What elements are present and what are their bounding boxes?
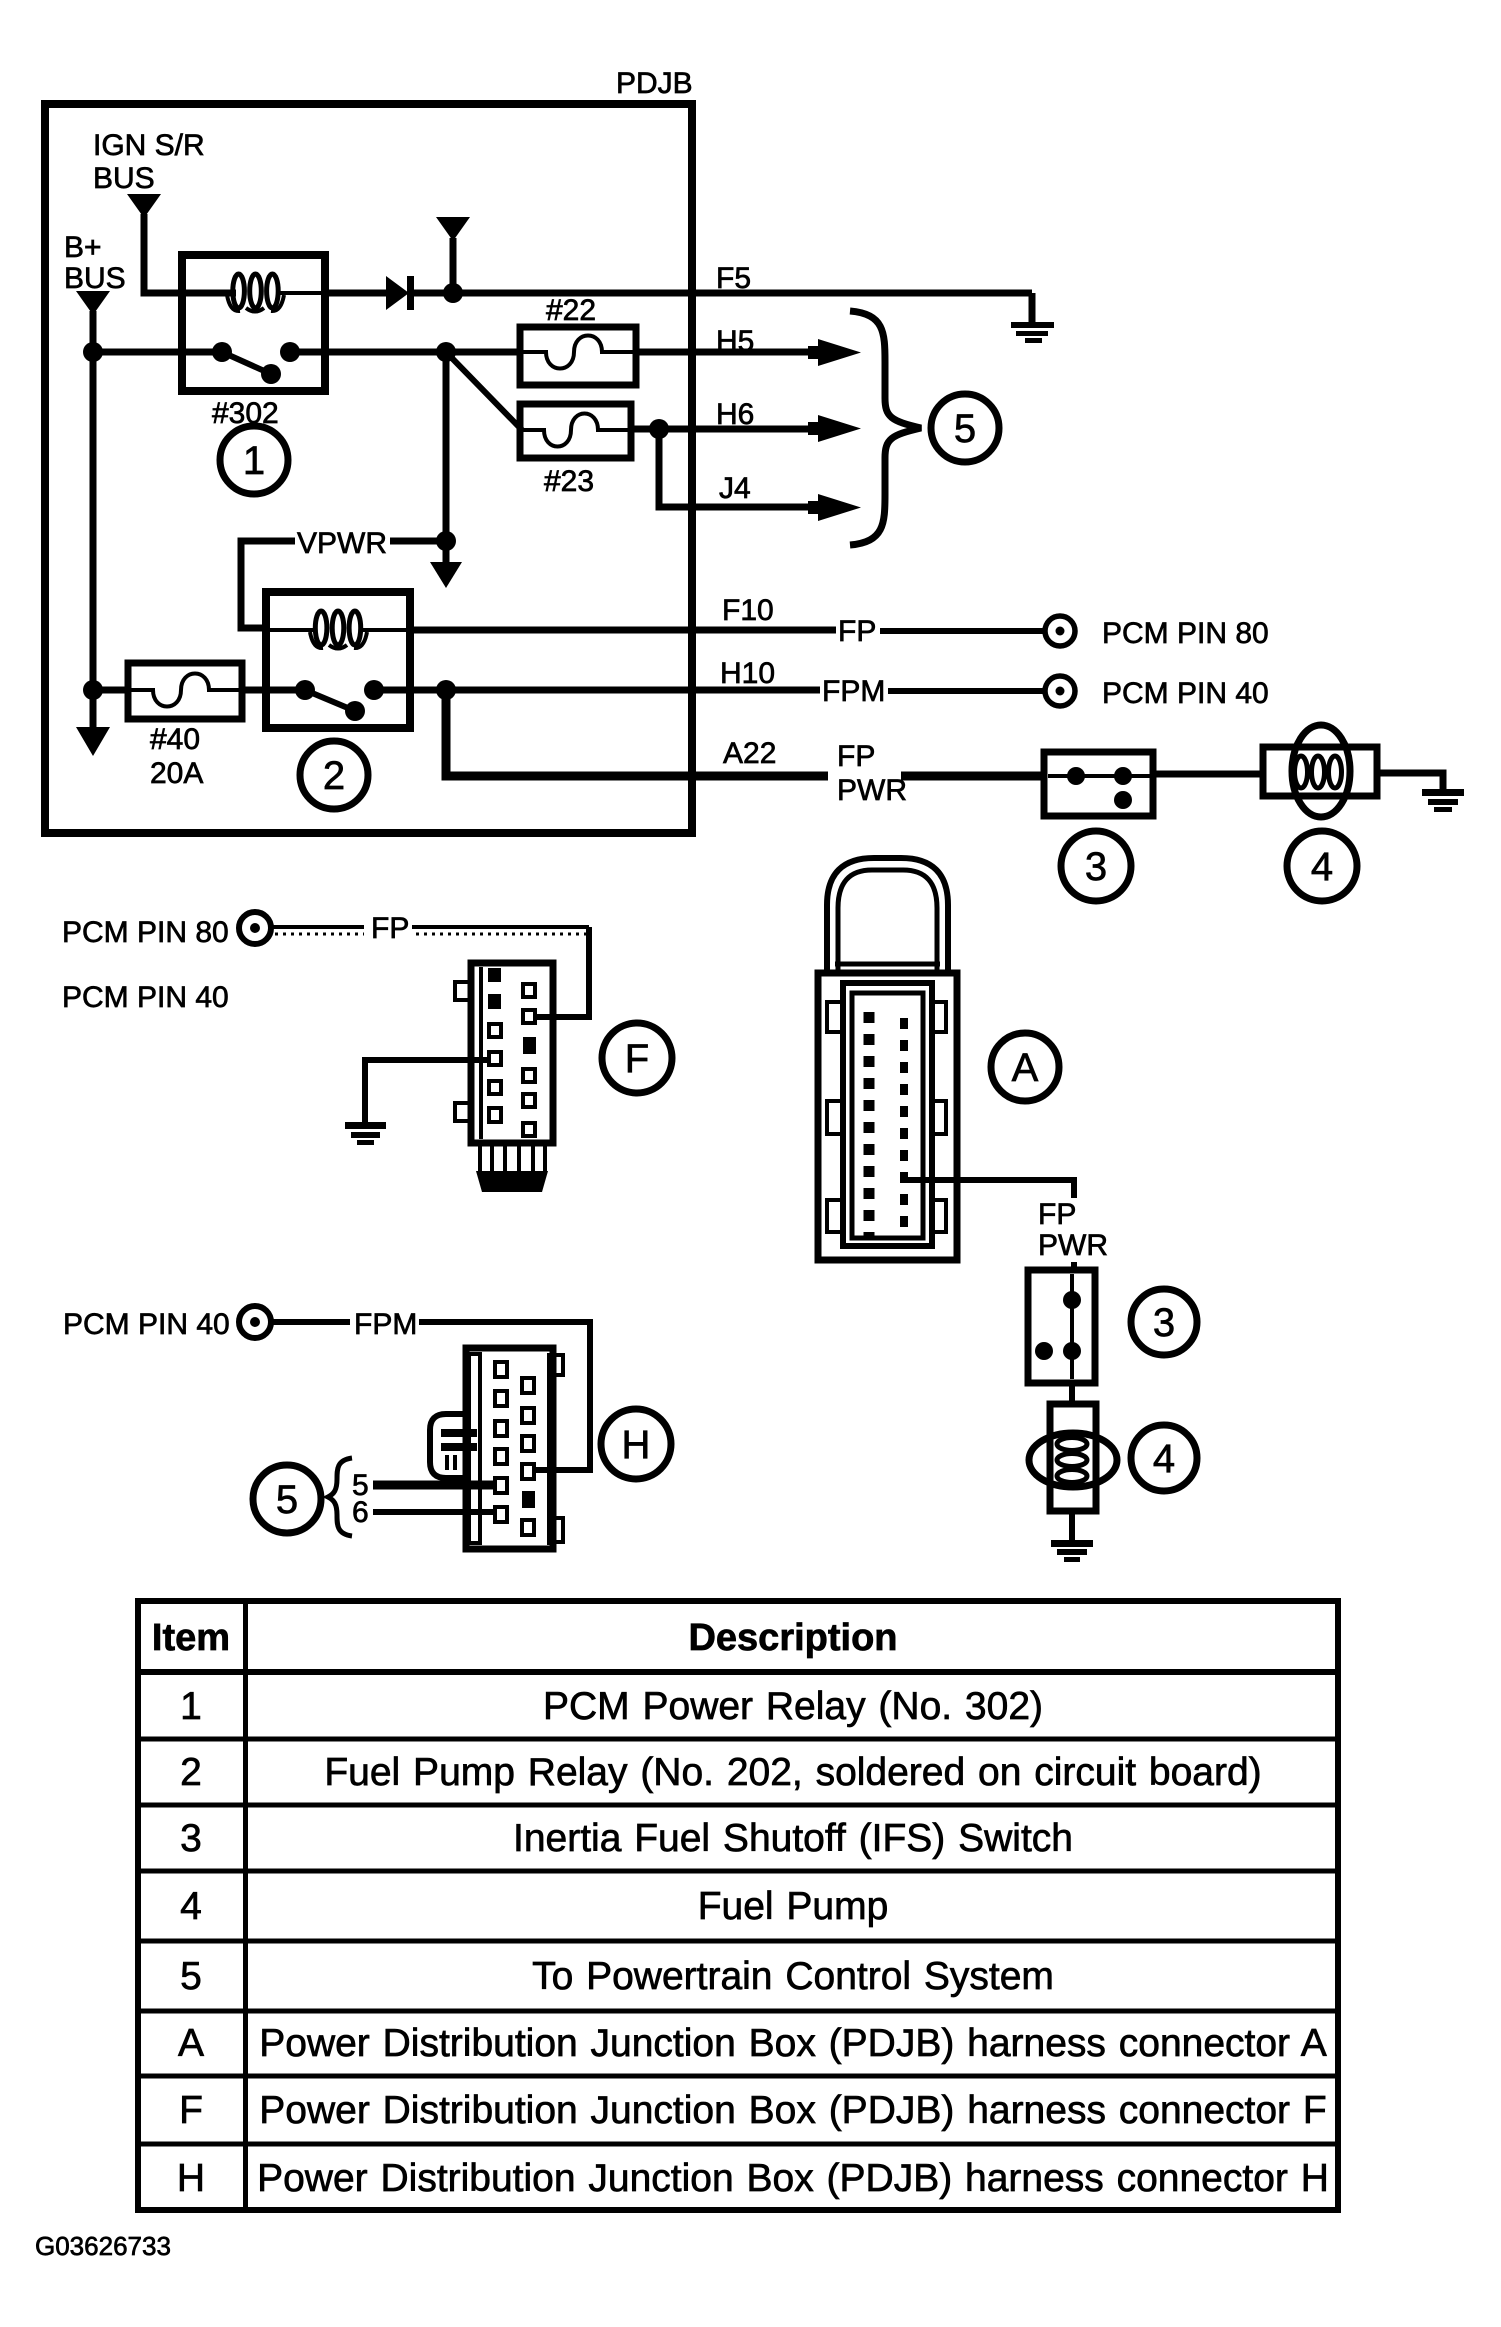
VPWR continuation arrow [430, 541, 462, 588]
ground at connector F [345, 1122, 386, 1145]
wire FP PWR to IFS switch [901, 772, 1045, 781]
item circle 3 section 3 [1131, 1289, 1197, 1355]
svg-text:Power Distribution Junction Bo: Power Distribution Junction Box (PDJB) h… [257, 2157, 1329, 2200]
node PCM PIN 40 label section 2 [62, 981, 229, 1014]
wire B+ to fuse 40 [93, 687, 128, 694]
fuse F40 labels [150, 723, 203, 790]
svg-text:A: A [178, 2022, 204, 2065]
item circle 5 section 4 [253, 1465, 321, 1533]
node H5 label [716, 325, 754, 358]
connector A lock tabs [827, 1002, 946, 1232]
node B+ BUS label [64, 231, 126, 295]
wire relay 1 output to fuse 22 [326, 349, 520, 356]
brace to powertrain control system [850, 311, 921, 545]
table header row [152, 1617, 898, 1659]
wire fuel pump to ground [1377, 773, 1443, 789]
svg-text:H: H [177, 2157, 205, 2200]
svg-text:H10: H10 [720, 657, 775, 690]
wire B+ bus vertical [90, 311, 97, 727]
ground at fuel pump [1422, 789, 1464, 812]
wire FP to PCM pin 80 [880, 628, 1045, 634]
node FP label row F10 [838, 615, 876, 648]
relay K2 box [266, 592, 410, 728]
node FPM label [822, 675, 885, 708]
fuse F40 [128, 663, 242, 719]
svg-text:PDJB: PDJB [616, 67, 693, 100]
IGN S/R BUS feed arrow [127, 194, 161, 218]
svg-text:BUS: BUS [64, 262, 126, 295]
connector A hood arch [827, 858, 948, 973]
svg-text:#22: #22 [546, 294, 596, 327]
connector circle A [991, 1033, 1059, 1101]
node PCM PIN 40 label section 4 [63, 1308, 230, 1341]
svg-text:#40: #40 [150, 723, 200, 756]
connector F body [455, 963, 553, 1143]
svg-text:3: 3 [1153, 1301, 1175, 1345]
table row item A [178, 2022, 1327, 2065]
wire relay 2 coil out F10 [406, 627, 836, 634]
relay K2 coil [270, 611, 406, 649]
wire fuse 22 to H5 [636, 349, 822, 356]
IFS switch S1 [1044, 752, 1153, 816]
terminal PCM PIN 80 [1045, 616, 1075, 646]
svg-text:PWR: PWR [1038, 1229, 1108, 1262]
connector F cable tails [476, 1143, 548, 1192]
connector H pins right column [522, 1378, 535, 1535]
ground at F5 [1011, 322, 1054, 343]
svg-text:PWR: PWR [837, 774, 907, 807]
relay K1 coil [186, 274, 322, 312]
svg-text:H: H [622, 1423, 651, 1467]
svg-text:2: 2 [323, 754, 345, 798]
svg-text:A: A [1012, 1046, 1039, 1090]
wire fuel pump to ground section 3 [1069, 1511, 1075, 1541]
table row item 5 [180, 1955, 1054, 1998]
junction A22 branch [436, 680, 456, 700]
B+ bus continuation arrow [76, 727, 110, 756]
wire FP down to connector F [535, 927, 589, 1017]
svg-text:VPWR: VPWR [297, 527, 387, 560]
svg-text:FPM: FPM [354, 1308, 417, 1341]
wire FP PWR down to IFS [1071, 1262, 1077, 1272]
svg-text:F5: F5 [716, 262, 751, 295]
node FP label section 2 [371, 912, 409, 945]
connector H latch [430, 1414, 477, 1478]
svg-text:FPM: FPM [822, 675, 885, 708]
wire FP dotted right [412, 927, 589, 934]
svg-text:#23: #23 [544, 465, 594, 498]
svg-text:Description: Description [688, 1617, 897, 1659]
svg-text:F: F [625, 1037, 649, 1081]
connector H pins left column [495, 1362, 507, 1522]
wire FPM to PCM pin 40 [888, 688, 1045, 694]
svg-text:Power Distribution Junction Bo: Power Distribution Junction Box (PDJB) h… [259, 2022, 1326, 2065]
node H6 label [716, 398, 754, 431]
IFS switch S1 section 3 [1028, 1270, 1095, 1383]
svg-text:BUS: BUS [93, 162, 155, 195]
connector circle H [601, 1409, 671, 1479]
node PCM PIN 80 label section 2 [62, 916, 229, 949]
item circle 5 [931, 394, 999, 462]
wire connector A pin to FP PWR [906, 1180, 1074, 1198]
relay K1 switch [212, 342, 326, 384]
svg-text:A22: A22 [723, 737, 776, 770]
svg-text:4: 4 [1153, 1437, 1175, 1481]
connector A body [818, 973, 957, 1260]
node PDJB label [616, 67, 693, 100]
relay K2 switch [295, 680, 410, 721]
svg-text:PCM PIN 40: PCM PIN 40 [63, 1308, 230, 1341]
svg-text:Fuel Pump: Fuel Pump [698, 1885, 889, 1928]
fuel pump M1 section 3 [1029, 1404, 1117, 1511]
PDJB box [45, 104, 692, 833]
fuse F22 [520, 327, 636, 385]
fuse F22 label [546, 294, 596, 327]
diode CR1 [386, 276, 414, 310]
wire IFS to fuel pump [1153, 771, 1266, 778]
relay K1 box [182, 255, 325, 391]
J4 arrow to powertrain [808, 494, 861, 521]
H5 arrow to powertrain [808, 339, 861, 366]
feed arrow above F5 junction [436, 217, 470, 293]
connector H body [466, 1348, 563, 1549]
junction F5 node [443, 283, 463, 303]
svg-text:4: 4 [1311, 845, 1333, 889]
item circle 4 section 3 [1131, 1425, 1197, 1491]
svg-text:20A: 20A [150, 757, 203, 790]
svg-text:1: 1 [180, 1685, 202, 1728]
svg-text:FP: FP [837, 740, 875, 773]
node H10 label [720, 657, 775, 690]
svg-text:F: F [179, 2089, 203, 2132]
node PCM PIN 40 label [1102, 677, 1269, 710]
svg-text:IGN S/R: IGN S/R [93, 129, 205, 162]
svg-text:J4: J4 [719, 472, 751, 505]
connector F pins right column [523, 984, 536, 1136]
ground at fuel pump section 3 [1051, 1540, 1093, 1562]
junction VPWR node [436, 531, 456, 551]
wire J4 branch [659, 429, 822, 507]
terminal PCM PIN 80 section 2 [239, 912, 271, 944]
wire FP dotted left [271, 927, 364, 934]
H6 arrow to powertrain [808, 415, 861, 442]
wire relay 1 coil to diode [322, 290, 388, 297]
svg-text:3: 3 [1085, 845, 1107, 889]
svg-text:F10: F10 [722, 594, 774, 627]
svg-text:PCM PIN 40: PCM PIN 40 [62, 981, 229, 1014]
svg-text:To Powertrain Control System: To Powertrain Control System [532, 1955, 1054, 1998]
svg-text:Inertia Fuel Shutoff (IFS) Swi: Inertia Fuel Shutoff (IFS) Switch [513, 1817, 1073, 1860]
svg-text:Fuel Pump Relay (No. 202, sold: Fuel Pump Relay (No. 202, soldered on ci… [324, 1751, 1261, 1794]
table row item H [177, 2157, 1329, 2200]
figure number G03626733 [35, 2231, 171, 2261]
fuel pump M1 [1263, 725, 1377, 817]
wire F5 out of PDJB [453, 290, 1032, 297]
svg-text:H5: H5 [716, 325, 754, 358]
svg-text:5: 5 [276, 1478, 298, 1522]
brace item 5 pins [328, 1458, 352, 1536]
item circle 2 [300, 741, 368, 809]
node PCM PIN 80 label [1102, 617, 1269, 650]
fuse F23 label [544, 465, 594, 498]
wire FPM to connector H [419, 1322, 590, 1470]
wire diagonal to fuse 23 [446, 352, 522, 430]
svg-text:4: 4 [180, 1885, 202, 1928]
table row item 1 [180, 1685, 1043, 1728]
svg-text:5: 5 [954, 407, 976, 451]
svg-text:FP: FP [371, 912, 409, 945]
connector A pin strips [869, 1012, 904, 1240]
node J4 label [719, 472, 751, 505]
svg-text:G03626733: G03626733 [35, 2231, 171, 2261]
wire terminal to FPM [271, 1319, 350, 1325]
table row item 3 [180, 1817, 1073, 1860]
node FP PWR label [837, 740, 907, 807]
B+ BUS feed arrow [76, 291, 110, 315]
table row item F [179, 2089, 1327, 2132]
wire VPWR bracket to relay 2 coil [241, 541, 295, 628]
svg-text:2: 2 [180, 1751, 202, 1794]
svg-text:Power Distribution Junction Bo: Power Distribution Junction Box (PDJB) h… [259, 2089, 1326, 2132]
wire fuse 40 to relay 2 [242, 687, 306, 694]
svg-text:5: 5 [180, 1955, 202, 1998]
svg-text:3: 3 [180, 1817, 202, 1860]
node A22 label [723, 737, 776, 770]
F5 ground drop [1029, 293, 1036, 323]
wire B+ to relay 1 switch [93, 349, 219, 356]
svg-text:H6: H6 [716, 398, 754, 431]
svg-text:B+: B+ [64, 231, 102, 264]
node VPWR label [297, 527, 387, 560]
item circle 3 [1061, 831, 1131, 901]
legend table frame [138, 1601, 1338, 2210]
wire IFS to fuel pump section 3 [1069, 1383, 1075, 1406]
svg-text:FP: FP [838, 615, 876, 648]
connector F pins left column [488, 968, 501, 1122]
wire diode to F5 junction [414, 290, 453, 297]
junction B+ at relay 1 [83, 342, 103, 362]
node FP PWR label section 3 [1038, 1198, 1108, 1262]
junction VPWR branch [436, 342, 456, 362]
terminal PCM PIN 40 [1045, 676, 1075, 706]
relay K1 reference #302 [212, 397, 279, 430]
svg-text:PCM PIN 40: PCM PIN 40 [1102, 677, 1269, 710]
table row item 4 [180, 1885, 888, 1928]
wire relay 2 output H10 [410, 687, 820, 694]
node IGN S/R BUS label [93, 129, 205, 195]
wire connector F to ground [365, 1060, 489, 1122]
svg-text:FP: FP [1038, 1198, 1076, 1231]
table row item 2 [180, 1751, 1261, 1794]
pin 5 label and wire [352, 1469, 495, 1502]
connector circle F [602, 1023, 672, 1093]
terminal PCM PIN 40 section 4 [239, 1306, 271, 1338]
svg-text:1: 1 [243, 439, 265, 483]
wire VPWR vertical [443, 352, 450, 534]
svg-text:PCM PIN 80: PCM PIN 80 [1102, 617, 1269, 650]
node F5 label [716, 262, 751, 295]
item circle 4 [1287, 831, 1357, 901]
pin 6 label and wire [352, 1496, 495, 1529]
node FPM label section 4 [354, 1308, 417, 1341]
wire A22 branch [446, 690, 828, 776]
item circle 1 [220, 426, 288, 494]
svg-text:6: 6 [352, 1496, 369, 1529]
wire IGN bus to relay coil [144, 214, 236, 293]
svg-text:PCM PIN 80: PCM PIN 80 [62, 916, 229, 949]
wire fuse 23 to H6 [631, 426, 822, 433]
node F10 label [722, 594, 774, 627]
svg-text:PCM Power Relay (No. 302): PCM Power Relay (No. 302) [543, 1685, 1043, 1728]
fuse F23 [520, 404, 631, 458]
wire VPWR label to junction [390, 538, 446, 545]
junction B+ at fuse 40 [83, 680, 103, 700]
junction H6 J4 [649, 419, 669, 439]
svg-text:Item: Item [152, 1617, 230, 1659]
